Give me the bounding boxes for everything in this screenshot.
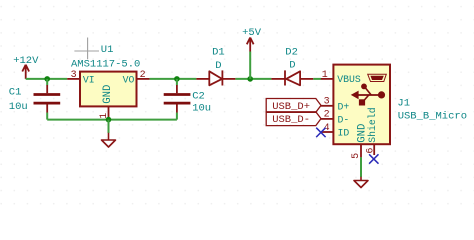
anchor cross U1 <box>74 38 99 60</box>
wire D1 to D2 <box>235 78 271 80</box>
svg-text:D: D <box>289 60 295 72</box>
svg-text:+12V: +12V <box>13 55 39 67</box>
svg-text:D: D <box>215 60 221 72</box>
svg-text:10u: 10u <box>9 101 28 113</box>
pin 1 (VBUS) <box>321 70 334 81</box>
svg-text:D+: D+ <box>338 102 350 113</box>
junction node +5V <box>247 76 253 82</box>
svg-text:VO: VO <box>123 74 135 85</box>
svg-text:2: 2 <box>140 70 146 81</box>
junction node C2/top <box>174 76 180 82</box>
regulator U1 AMS1117-5.0 <box>71 44 140 107</box>
svg-text:VI: VI <box>83 74 95 85</box>
global label USB_D- <box>266 112 321 126</box>
power +5V <box>242 27 262 52</box>
svg-text:+5V: +5V <box>242 27 262 39</box>
no-connect pin 4 <box>316 128 325 137</box>
bottom bus wire C1-GND-C2 <box>47 119 177 121</box>
junction node GND bus <box>106 117 112 123</box>
svg-text:U1: U1 <box>101 44 114 56</box>
pin 5 (GND) <box>351 144 362 159</box>
svg-text:1: 1 <box>322 70 328 81</box>
pin 2 (VO) <box>137 70 150 81</box>
USB trident icon <box>351 84 385 106</box>
diode D2 <box>271 47 313 86</box>
pin 4 (ID) <box>321 123 334 134</box>
svg-text:D-: D- <box>338 115 350 126</box>
wire +12V to U1 VI <box>26 78 67 80</box>
wire D2 to J1 VBUS <box>313 78 321 80</box>
svg-text:Shield: Shield <box>367 107 378 142</box>
wire VO to C2/D1 <box>150 78 197 80</box>
ground (U1) <box>102 120 116 147</box>
wire pin5 to ground <box>360 157 362 177</box>
pin 3 (VI) <box>67 70 80 81</box>
diode D1 <box>196 47 235 86</box>
capacitor C1 <box>9 79 60 120</box>
svg-text:D1: D1 <box>212 47 225 59</box>
connector J1 USB_B_Micro <box>333 65 467 145</box>
svg-text:USB_D+: USB_D+ <box>272 101 310 113</box>
svg-text:10u: 10u <box>192 102 211 114</box>
svg-text:C2: C2 <box>192 90 205 102</box>
svg-text:ID: ID <box>338 128 350 139</box>
junction node C1/top <box>44 76 50 82</box>
pin 6 (Shield) <box>366 144 377 155</box>
power +12V <box>13 55 39 79</box>
svg-text:D2: D2 <box>285 47 298 59</box>
pin 1 (GND) <box>99 106 110 119</box>
global label USB_D+ <box>266 99 321 113</box>
svg-text:AMS1117-5.0: AMS1117-5.0 <box>71 58 140 70</box>
svg-text:VBUS: VBUS <box>337 74 361 85</box>
svg-text:USB_D-: USB_D- <box>272 114 310 126</box>
ground (shield) <box>354 177 368 188</box>
USB receptacle icon <box>368 74 387 81</box>
svg-text:J1: J1 <box>397 97 410 109</box>
svg-text:GND: GND <box>102 85 114 104</box>
no-connect pin 6 <box>369 154 378 163</box>
svg-text:6: 6 <box>366 148 377 154</box>
svg-text:2: 2 <box>324 110 330 121</box>
svg-text:USB_B_Micro: USB_B_Micro <box>398 110 467 122</box>
svg-text:3: 3 <box>71 70 77 81</box>
wire +5V vertical <box>249 52 251 79</box>
svg-text:3: 3 <box>324 97 330 108</box>
capacitor C2 <box>164 79 211 120</box>
svg-text:C1: C1 <box>9 87 22 99</box>
pin 2 (D-) <box>321 110 334 121</box>
pin 3 (D+) <box>321 97 334 108</box>
